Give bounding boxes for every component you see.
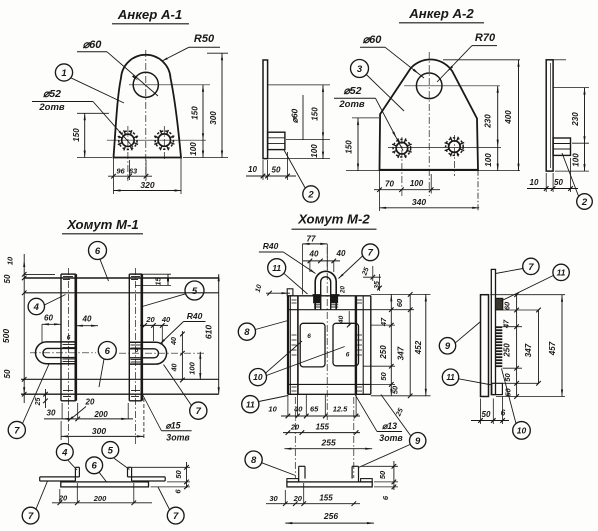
- bottom view M-2 bar: [287, 482, 372, 487]
- side view A-2 plate: [546, 60, 553, 171]
- connector centerline left M-2: [294, 397, 296, 478]
- dimension 40 below rail M-2: [338, 311, 352, 327]
- bottom view M-1 right hook: [128, 467, 132, 481]
- dimension 400 A-2: [504, 60, 520, 171]
- extension line top right A-2: [443, 59, 520, 61]
- clamp M-1 top inner line: [24, 292, 219, 294]
- dimension 452 M-2: [414, 294, 427, 395]
- balloon 7 side M-2 with leader: [496, 258, 540, 274]
- connector centerline right M-2: [353, 397, 355, 478]
- label ⌀60 rotated side view A-1: [290, 95, 304, 140]
- side view A-2 boss item 2: [553, 138, 570, 155]
- clamp M-1 plate bottom edge: [21, 393, 219, 395]
- clamp M-2 top rail line: [288, 309, 371, 311]
- right strap item 5 M-1: [129, 274, 142, 401]
- dimension 230 A-2: [484, 86, 499, 147]
- dimension 255 M-2: [284, 437, 372, 450]
- label ⌀52 2отв A-2 with leader: [334, 85, 403, 151]
- side view M-2 strap band with hoop stick: [491, 269, 495, 394]
- extension lines bottom dims A-1: [114, 158, 182, 195]
- centerline vertical right hole A-1: [163, 126, 165, 160]
- balloon 10 side M-2 with leader: [502, 369, 531, 440]
- bottom view M-1 right strap tail: [128, 477, 166, 481]
- label R40 M-2 with leader: [259, 241, 316, 274]
- dimension 60 M-1: [42, 314, 61, 344]
- balloon 9 M-2 with leaders: [359, 395, 426, 468]
- window right M-2: [333, 323, 359, 366]
- balloon 7 right M-1 with leader: [164, 365, 207, 420]
- centerline right U-bolt M-1: [119, 352, 204, 354]
- balloon 6 middle M-1 with leader: [98, 342, 116, 388]
- label ⌀13 3отв M-2 with leader: [355, 395, 403, 443]
- dimension 50 bottom view M-2: [361, 461, 399, 490]
- extension lines side A-2: [553, 60, 589, 171]
- centerline left strap M-1: [67, 268, 69, 444]
- dimension 40 40 vertical right of U M-1: [171, 331, 185, 382]
- balloon 5 bottom M-1 with leader: [102, 442, 130, 470]
- label ⌀60 A-2 with leader: [360, 34, 424, 78]
- tab top left M-2 with dim 10: [255, 284, 293, 296]
- view title: Анкер А-2: [399, 6, 484, 23]
- anchor A-2 plate outline: [380, 59, 479, 169]
- clamp M-1 plate top edge: [24, 277, 219, 279]
- label ⌀60 A-1 with leader: [77, 39, 158, 96]
- dimension 150 side A-1: [268, 85, 330, 139]
- clamp M-2 bottom rail line: [288, 383, 371, 385]
- side view M-2 strap hatch item 10: [496, 327, 503, 366]
- balloon 5 M-1 with leader: [141, 281, 204, 307]
- dimension 150 left A-2: [345, 118, 380, 171]
- dimension 6 bottom view M-2: [374, 485, 398, 500]
- bottom view M-2 right end lip: [361, 479, 373, 482]
- centerline vertical A-1 top hole: [145, 50, 147, 181]
- dimension 300 M-1: [61, 398, 144, 440]
- label R40 M-1 with leader: [160, 311, 206, 344]
- centerline right strap M-1: [135, 268, 137, 444]
- label 20 with bent leader M-1: [72, 398, 95, 419]
- bottom view M-1 plate bar item 6: [61, 482, 149, 487]
- extension line bottom A-2: [346, 170, 520, 172]
- dimension 15 M-1: [132, 274, 171, 285]
- dimension 610 right M-1: [204, 274, 220, 394]
- centerline vertical A-2: [428, 52, 430, 196]
- balloon 7 left M-1 with leader: [8, 364, 49, 439]
- balloon 3 with leader: [351, 60, 405, 112]
- balloon 8 bottom M-2 with leader: [245, 451, 296, 476]
- balloon 4 M-1 with leader: [28, 295, 65, 315]
- dimension column 47 250 50 50 M-2: [379, 294, 400, 395]
- hole ⌀52 left A-2: [392, 138, 412, 158]
- view title: Хомут М-2: [292, 212, 377, 230]
- label R70 A-2 with leader: [437, 32, 497, 82]
- dimension 70 100 A-2: [374, 179, 440, 192]
- hole ⌀52 left A-1: [118, 130, 138, 150]
- clamp M-2 plate outline: [288, 296, 371, 395]
- bottom view M-1 left strap tail: [40, 477, 80, 481]
- anchor A-1 plate outline: [114, 55, 182, 158]
- hole ⌀60 A-1: [133, 72, 158, 97]
- dimension 340 A-2: [379, 197, 479, 209]
- dimension 150 left A-1: [72, 113, 112, 157]
- left strap band M-2: [290, 296, 298, 395]
- extension lines bottom dims A-2: [380, 170, 479, 211]
- side view M-2 bottom block item 11: [492, 383, 503, 394]
- centerline left U-bolt M-1: [30, 352, 96, 354]
- balloon 11 side top M-2 with leader: [501, 264, 569, 301]
- dimension 100 side A-1: [268, 139, 330, 158]
- balloon 7 M-2 with leader: [339, 244, 379, 279]
- hole ⌀52 right A-2: [445, 137, 465, 157]
- dimension 300 A-1: [207, 53, 228, 157]
- left dimension column M-1: 10 50 500 50: [1, 254, 27, 403]
- hole ⌀52 right A-1: [154, 130, 174, 150]
- side view A-1 boss item 2: [268, 132, 285, 149]
- bottom view M-2 right hook: [352, 466, 358, 482]
- centerline vertical left hole A-2: [401, 137, 403, 196]
- side view A-1 plate: [263, 60, 268, 159]
- right strap band M-2: [356, 296, 363, 395]
- dimension 6 bottom view M-1: [151, 485, 191, 494]
- bottom view M-2 left end lip: [287, 479, 299, 482]
- side view M-2 main plate: [481, 295, 489, 397]
- balloon 7 bottom left M-1 with leader: [22, 481, 47, 524]
- balloon 7 bottom right M-1 with leader: [158, 487, 184, 524]
- dimension 40 40 M-2: [303, 249, 346, 272]
- dimension 457 side M-2: [548, 295, 563, 397]
- extension line bottom right A-1: [183, 157, 228, 159]
- window left M-2: [300, 323, 325, 367]
- side view M-2 top block item 11: [496, 298, 503, 309]
- label ⌀52 2отв A-1 with leader: [32, 88, 133, 147]
- label ⌀15 3отв M-1 with leader: [143, 395, 192, 443]
- left strap item 4 M-1: [61, 274, 76, 401]
- dimension 20 200 bottom view M-1: [52, 483, 152, 505]
- centerline horizontal A-2 top hole: [404, 85, 500, 87]
- extension lines right M-2: [363, 294, 430, 395]
- dimension 100 side A-2: [572, 143, 586, 171]
- dimension 10 50 side A-1: [246, 152, 296, 180]
- dimension 25 35 right of hoop M-2: [361, 266, 382, 291]
- dimension 320 A-1: [114, 180, 182, 192]
- balloon 2 A-2 with leader: [562, 153, 592, 209]
- U-bolt right M-1 item 7: [129, 342, 166, 364]
- balloon 10 M-2 with two leaders: [249, 341, 344, 386]
- dimension 230 side A-2: [571, 88, 586, 144]
- balloon 6 top M-1 with leader: [89, 242, 109, 282]
- extension line strap cap level M-1: [24, 273, 55, 275]
- balloon 6 bottom M-1 with leader: [86, 457, 107, 482]
- centerline horizontal lower holes A-2: [388, 146, 501, 148]
- balloon 1 with leader: [55, 64, 124, 103]
- hole ⌀60 A-2: [416, 73, 442, 99]
- centerline horizontal A-1 top hole: [129, 84, 210, 86]
- bottom view M-2 left hook: [299, 466, 305, 482]
- balloon 9 side M-2 with leader: [439, 322, 480, 354]
- label R50 A-1 with leader: [162, 33, 220, 61]
- dimension 150 right A-1: [191, 85, 205, 140]
- centerline vertical left hole A-1: [127, 126, 129, 181]
- U-bolt left M-1 item 7: [35, 342, 75, 364]
- balloon 2 A-1 with leader: [284, 150, 319, 202]
- dimension 100 right A-1: [189, 140, 204, 157]
- dimension 347 side M-2: [524, 308, 541, 386]
- dimension 96 63 A-1: [108, 167, 152, 179]
- balloon 11 side lower M-2 with leader: [442, 369, 492, 385]
- dimension 50 6 bottom side M-2: [471, 397, 509, 425]
- centerline hoop M-2: [326, 247, 328, 420]
- balloon 4 bottom M-1 with leader: [56, 444, 77, 470]
- centerline horizontal lower holes A-1: [107, 139, 206, 141]
- dimension row 30 20 155 M-2 bottom: [266, 483, 360, 506]
- dimension 25 bottom left M-1: [35, 389, 48, 408]
- dimension column 60 47 250 50 50 side M-2: [502, 292, 519, 398]
- balloon 8 M-2 with leader: [238, 321, 288, 341]
- extension lines bottom dims M-2: [288, 394, 356, 416]
- dimension 20 40 above right U-bolt M-1: [140, 315, 171, 344]
- dimension 50 bottom view M-1: [132, 462, 190, 488]
- view title: Хомут М-1: [62, 217, 143, 234]
- clamp M-1 bottom inner line: [21, 378, 219, 380]
- balloon 11 lower M-2 with leader: [242, 396, 288, 413]
- dimension 77 M-2: [303, 235, 328, 295]
- extension lines side M-2: [490, 295, 565, 397]
- dimension column 60 347 M-2: [395, 292, 413, 398]
- dimension 100 vertical M-1: [188, 352, 202, 380]
- dimension 40 left M-1: [76, 315, 98, 327]
- U-bolt hoop item 7 M-2: [313, 271, 340, 309]
- dimension row 20 155 M-2: [283, 423, 360, 435]
- bottom view M-1 left hook: [75, 467, 79, 481]
- view title: Анкер А-1: [112, 7, 189, 24]
- dimension 256 M-2 bottom: [285, 511, 374, 524]
- dimension 10 50 side A-2: [527, 158, 578, 192]
- dimension row 200 M-1: [44, 403, 133, 421]
- balloon 11 top M-2 with leader: [268, 259, 308, 294]
- dimension 100 right A-2: [484, 147, 499, 171]
- centerline vertical right hole A-2: [453, 135, 455, 176]
- dimension row 10 40 65 12.5 M-2: [268, 405, 360, 419]
